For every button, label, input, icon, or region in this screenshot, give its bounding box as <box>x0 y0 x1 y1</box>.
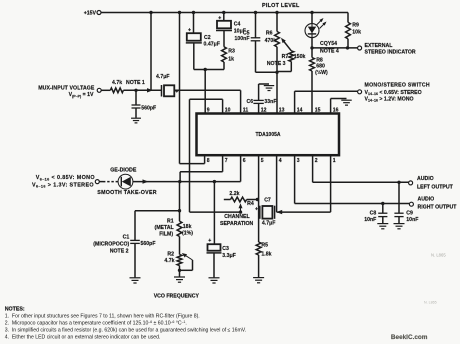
svg-text:1. For other input structures: 1. For other input structures see Figure… <box>5 314 200 320</box>
svg-text:AUDIO: AUDIO <box>417 176 434 182</box>
svg-text:11: 11 <box>243 108 249 114</box>
svg-text:3. In simplified circuits a f: 3. In simplified circuits a fixed resist… <box>5 328 247 334</box>
svg-text:(METAL: (METAL <box>154 225 174 231</box>
svg-text:1: 1 <box>333 158 336 164</box>
svg-text:13: 13 <box>279 108 285 114</box>
svg-text:TDA1005A: TDA1005A <box>255 132 280 138</box>
svg-text:33nF: 33nF <box>264 99 276 105</box>
svg-text:MUX-INPUT VOLTAGE: MUX-INPUT VOLTAGE <box>38 85 95 91</box>
svg-text:PILOT LEVEL: PILOT LEVEL <box>262 3 300 9</box>
svg-text:CQY54: CQY54 <box>320 41 337 47</box>
svg-text:+: + <box>208 238 211 244</box>
svg-text:4: 4 <box>279 158 282 164</box>
svg-text:C7: C7 <box>264 197 271 203</box>
svg-text:R4: R4 <box>247 201 254 207</box>
svg-text:R5: R5 <box>261 243 268 249</box>
svg-text:1k: 1k <box>228 56 234 62</box>
svg-text:N. L865: N. L865 <box>424 300 437 304</box>
svg-text:6: 6 <box>243 158 246 164</box>
svg-text:C4: C4 <box>234 21 241 27</box>
svg-text:R8: R8 <box>316 57 323 63</box>
svg-text:MONO/STEREO SWITCH: MONO/STEREO SWITCH <box>365 83 430 89</box>
svg-text:C3: C3 <box>222 246 229 252</box>
svg-text:R2: R2 <box>167 251 174 257</box>
svg-text:7: 7 <box>225 158 228 164</box>
svg-text:R9: R9 <box>352 22 359 28</box>
svg-text:15: 15 <box>315 108 321 114</box>
svg-text:C8: C8 <box>370 210 377 216</box>
svg-text:560pF: 560pF <box>141 106 156 112</box>
svg-text:(MICROPOCO): (MICROPOCO) <box>93 241 129 247</box>
svg-text:680: 680 <box>316 64 325 70</box>
svg-text:EXTERNAL: EXTERNAL <box>365 43 394 49</box>
svg-text:10: 10 <box>225 108 231 114</box>
svg-text:CHANNEL: CHANNEL <box>224 214 250 220</box>
svg-text:N. L865: N. L865 <box>431 253 446 258</box>
svg-text:LEFT OUTPUT: LEFT OUTPUT <box>417 185 454 191</box>
svg-text:VCO FREQUENCY: VCO FREQUENCY <box>154 293 200 299</box>
svg-text:0.47μF: 0.47μF <box>204 42 220 48</box>
svg-text:+: + <box>218 15 221 21</box>
svg-text:16: 16 <box>333 108 339 114</box>
svg-text:4.7μF: 4.7μF <box>262 220 276 226</box>
svg-text:2.2k: 2.2k <box>229 191 239 197</box>
svg-text:3.3μF: 3.3μF <box>222 253 236 259</box>
svg-text:4.7μF: 4.7μF <box>156 74 170 80</box>
svg-text:10nF: 10nF <box>406 217 418 223</box>
svg-text:NOTE 2: NOTE 2 <box>110 248 129 254</box>
svg-text:8: 8 <box>207 158 210 164</box>
svg-text:3: 3 <box>297 158 300 164</box>
svg-text:10k: 10k <box>352 29 361 35</box>
svg-text:150k: 150k <box>294 54 306 60</box>
svg-text:1.8k: 1.8k <box>261 251 271 257</box>
svg-text:(½W): (½W) <box>315 69 328 76</box>
svg-text:FILM): FILM) <box>159 231 173 237</box>
svg-text:C6: C6 <box>247 99 254 105</box>
svg-text:NOTES:: NOTES: <box>5 307 25 313</box>
svg-text:R6: R6 <box>266 30 273 36</box>
svg-text:NOTE 3: NOTE 3 <box>267 61 286 67</box>
svg-text:GE-DIODE: GE-DIODE <box>110 167 137 173</box>
svg-text:R3: R3 <box>228 49 235 55</box>
svg-text:4.7k: 4.7k <box>112 80 122 86</box>
svg-text:C2: C2 <box>204 35 211 41</box>
svg-text:5: 5 <box>261 158 264 164</box>
svg-text:+15V: +15V <box>84 10 97 16</box>
svg-text:18k: 18k <box>183 224 192 230</box>
svg-text:R7: R7 <box>282 54 289 60</box>
svg-text:BeekIC.com: BeekIC.com <box>391 334 428 341</box>
svg-text:+: + <box>255 207 258 213</box>
svg-text:470k: 470k <box>265 38 277 44</box>
svg-text:AUDIO: AUDIO <box>418 197 435 203</box>
svg-text:4. Either the LED circuit or: 4. Either the LED circuit or an external… <box>5 335 161 341</box>
svg-text:100nF: 100nF <box>235 36 250 42</box>
svg-text:(1%): (1%) <box>182 231 193 237</box>
svg-text:10nF: 10nF <box>364 217 376 223</box>
svg-text:560pF: 560pF <box>141 241 156 247</box>
svg-text:9: 9 <box>207 108 210 114</box>
svg-text:SEPARATION: SEPARATION <box>220 221 253 227</box>
svg-text:4.7k: 4.7k <box>164 258 174 264</box>
svg-text:14: 14 <box>297 108 303 114</box>
svg-text:NOTE 4: NOTE 4 <box>320 48 339 54</box>
svg-text:12: 12 <box>261 108 267 114</box>
svg-text:2: 2 <box>315 158 318 164</box>
svg-text:R1: R1 <box>167 218 174 224</box>
svg-text:C1: C1 <box>123 234 130 240</box>
svg-text:+: + <box>188 28 191 34</box>
svg-text:2. Micropoco capacitor has a: 2. Micropoco capacitor has a temperature… <box>5 320 187 327</box>
svg-text:STEREO INDICATOR: STEREO INDICATOR <box>365 50 416 56</box>
svg-text:C9: C9 <box>406 210 413 216</box>
svg-text:NOTE 1: NOTE 1 <box>126 80 145 86</box>
svg-text:SMOOTH TAKE-OVER: SMOOTH TAKE-OVER <box>97 190 157 196</box>
svg-text:RIGHT OUTPUT: RIGHT OUTPUT <box>418 205 458 211</box>
